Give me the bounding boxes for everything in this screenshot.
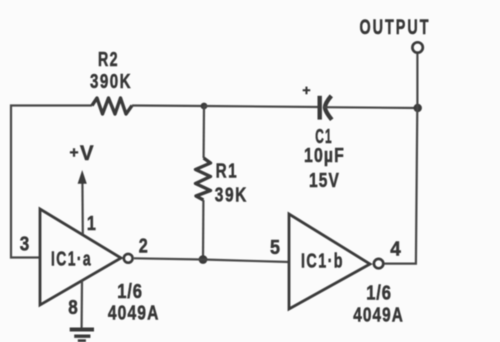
svg-text:8: 8	[68, 296, 78, 319]
svg-text:IC1·a: IC1·a	[51, 249, 92, 271]
wire: R1 bottom lead	[202, 200, 205, 259]
svg-text:+: +	[69, 145, 78, 162]
wire: IC1-b output up to node B	[384, 108, 417, 264]
node B (output junction)	[414, 104, 422, 112]
svg-text:5: 5	[270, 236, 280, 259]
svg-text:R1: R1	[216, 160, 239, 183]
svg-text:2: 2	[139, 235, 148, 258]
+V supply arrow	[69, 142, 93, 235]
svg-text:3: 3	[20, 233, 30, 256]
output terminal	[412, 42, 422, 52]
svg-text:15V: 15V	[309, 169, 340, 192]
wire: pin 8 to ground	[80, 280, 83, 328]
svg-text:10µF: 10µF	[304, 144, 345, 167]
svg-text:1/6: 1/6	[366, 282, 392, 305]
resistor R2	[90, 48, 132, 114]
node C (junction of R1 and gate wires)	[199, 255, 208, 264]
svg-text:IC1·b: IC1·b	[301, 251, 344, 273]
inverter IC1-b	[289, 214, 383, 309]
wire: R1 top lead	[203, 106, 206, 158]
svg-text:R2: R2	[98, 48, 119, 71]
svg-text:4: 4	[390, 238, 401, 261]
wire: C1 to node B	[324, 106, 417, 109]
svg-text:V: V	[80, 142, 94, 165]
wire: node A to C1	[204, 106, 318, 107]
wire: IC1-a output to node C	[134, 258, 203, 259]
wire: node B up to output terminal	[416, 54, 418, 109]
svg-text:4049A: 4049A	[353, 304, 404, 327]
svg-text:1/6: 1/6	[117, 280, 143, 303]
svg-text:390K: 390K	[90, 70, 132, 93]
wire: node C to IC1-b input	[203, 260, 289, 263]
wire: R2 to node A	[132, 104, 204, 107]
svg-text:39K: 39K	[215, 184, 248, 207]
ground	[70, 330, 94, 341]
inverter IC1-a	[40, 209, 133, 305]
node A (junction of R2, R1, C1)	[201, 103, 208, 110]
svg-text:OUTPUT: OUTPUT	[360, 15, 431, 39]
resistor R1	[196, 158, 248, 207]
wire: feedback path (left vertical and top-left segment)	[11, 106, 92, 258]
svg-text:4049A: 4049A	[108, 302, 160, 325]
svg-text:+: +	[302, 82, 310, 98]
svg-text:1: 1	[87, 212, 96, 235]
capacitor C1	[302, 82, 345, 192]
